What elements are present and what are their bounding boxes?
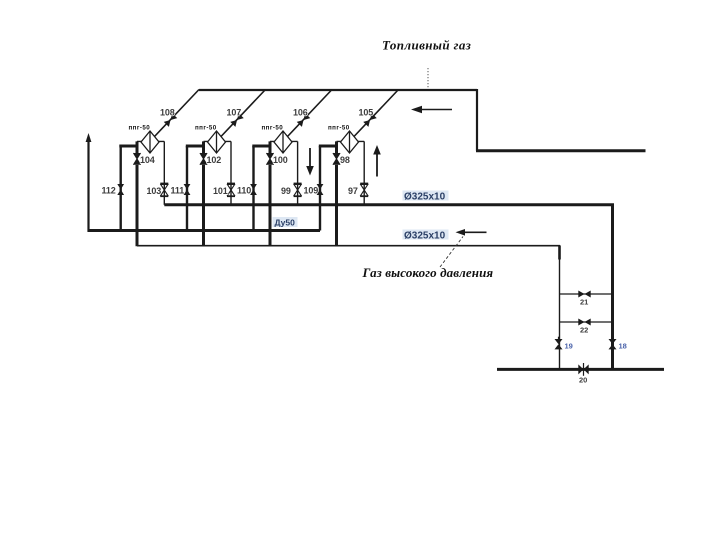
valve 102 (riser unit2) (200, 153, 207, 165)
valve 98 (riser unit4) (333, 153, 340, 165)
flow arrow left (lower) (456, 229, 487, 236)
valve 107 (diagonal unit2) (230, 113, 244, 127)
wire riser unit4 (335, 141, 338, 246)
svg-text:97: 97 (348, 186, 358, 196)
valve 111 (bypass unit2) (184, 184, 191, 195)
svg-text:Газ высокого давления: Газ высокого давления (362, 265, 494, 280)
svg-text:19: 19 (565, 342, 573, 351)
svg-text:Ø325x10: Ø325x10 (404, 231, 446, 242)
wire drain header Ду50 (137, 245, 560, 247)
wire outlet drop unit2 (230, 141, 232, 204)
svg-text:ппг-50: ппг-50 (262, 125, 284, 132)
svg-text:112: 112 (102, 185, 116, 195)
wire regulator inlet pipe unit2 (204, 140, 232, 142)
svg-text:ппг-50: ппг-50 (129, 125, 151, 132)
svg-text:108: 108 (160, 108, 175, 118)
valve 109 (bypass unit4) (317, 184, 324, 195)
wire upstream stub unit2 (186, 145, 205, 148)
svg-text:101: 101 (213, 186, 228, 196)
wire bypass line unit4 (319, 146, 321, 231)
svg-text:ппг-50: ппг-50 (328, 125, 350, 132)
valve 112 (bypass unit1) (117, 184, 124, 195)
wire vent diagonal unit2 (221, 90, 266, 137)
svg-text:105: 105 (359, 108, 374, 118)
svg-text:98: 98 (340, 155, 350, 165)
wire riser unit2 (202, 141, 205, 246)
flow arrow down (between units 3 and 4) (306, 148, 314, 176)
wire outlet drop unit4 (363, 141, 365, 204)
wire bypass line unit3 (252, 146, 254, 231)
wire upstream stub unit1 (119, 145, 138, 148)
svg-text:110: 110 (237, 185, 251, 195)
wire bypass line unit1 (119, 146, 121, 231)
flow arrow up (right of unit 4) (373, 145, 381, 177)
wire tie line lower (valve 22) (560, 321, 613, 323)
wire bypass line unit2 (186, 146, 188, 231)
wire riser unit1 (136, 141, 139, 246)
wire header 2 (lower thick header) (88, 229, 321, 232)
valve 101 (outlet unit2) (227, 184, 235, 196)
wire fuel gas outlet pipe (476, 149, 646, 152)
svg-text:111: 111 (171, 185, 185, 195)
svg-text:20: 20 (579, 376, 587, 385)
wire left inlet line with up arrow (86, 133, 92, 232)
wire riser unit3 (269, 141, 272, 246)
valve 104 (riser unit1) (133, 153, 140, 165)
valve 97 (outlet unit4) (360, 184, 368, 196)
wire regulator inlet pipe unit1 (137, 140, 164, 142)
wire outlet drop unit3 (297, 141, 299, 204)
svg-text:107: 107 (227, 108, 242, 118)
valve 110 (bypass unit3) (250, 184, 257, 195)
label Ду50 (273, 217, 298, 228)
wire vent diagonal unit4 (354, 90, 399, 137)
wire drain drop right (558, 245, 561, 259)
dashed leader from lower title (440, 237, 463, 268)
wire regulator inlet pipe unit4 (337, 140, 365, 142)
svg-text:ппг-50: ппг-50 (195, 125, 217, 132)
wire bottom manifold pipe (497, 368, 664, 371)
svg-text:22: 22 (580, 326, 588, 335)
wire vent diagonal unit1 (155, 90, 200, 137)
svg-text:99: 99 (281, 186, 291, 196)
wire tie line upper (valve 21) (560, 293, 613, 295)
svg-text:Ду50: Ду50 (275, 218, 296, 228)
valve 19 (555, 337, 563, 350)
valve 106 (diagonal unit3) (297, 113, 311, 127)
svg-text:104: 104 (140, 155, 155, 165)
svg-text:106: 106 (293, 108, 308, 118)
regulator ППГ unit2 (208, 131, 226, 153)
wire upstream stub unit4 (319, 145, 338, 148)
valve 22 (578, 319, 590, 326)
valve 108 (diagonal unit1) (164, 113, 178, 127)
svg-text:21: 21 (580, 298, 588, 307)
valve 99 (outlet unit3) (294, 184, 302, 196)
svg-text:18: 18 (619, 342, 627, 351)
svg-text:Ø325x10: Ø325x10 (404, 192, 446, 203)
wire outlet drop unit1 (163, 141, 165, 204)
regulator ППГ unit3 (274, 131, 292, 153)
regulator ППГ unit4 (341, 131, 359, 153)
dotted leader from title (427, 68, 429, 89)
svg-text:102: 102 (207, 155, 222, 165)
valve 21 (578, 291, 590, 298)
valve 18 (609, 337, 617, 350)
valve 105 (diagonal unit4) (363, 113, 377, 127)
wire regulator inlet pipe unit3 (270, 140, 298, 142)
wire upstream stub unit3 (252, 145, 271, 148)
flow arrow left (top) (411, 106, 452, 113)
svg-text:109: 109 (304, 185, 319, 195)
wire vent diagonal unit3 (288, 90, 333, 137)
wire right vertical of top pipe (476, 89, 478, 151)
wire right drop of header 1 (611, 205, 614, 370)
valve 20 (578, 363, 588, 376)
label Ø325x10 lower (403, 230, 449, 242)
wire header 1 (O325x10 header) (164, 203, 614, 206)
svg-text:Топливный газ: Топливный газ (382, 38, 471, 53)
svg-text:103: 103 (147, 186, 162, 196)
wire top header pipe (199, 89, 477, 91)
valve 103 (outlet unit1) (160, 184, 168, 196)
svg-text:100: 100 (273, 155, 288, 165)
regulator ППГ unit1 (141, 131, 159, 153)
valve 100 (riser unit3) (266, 153, 273, 165)
label Ø325x10 upper (403, 191, 449, 203)
